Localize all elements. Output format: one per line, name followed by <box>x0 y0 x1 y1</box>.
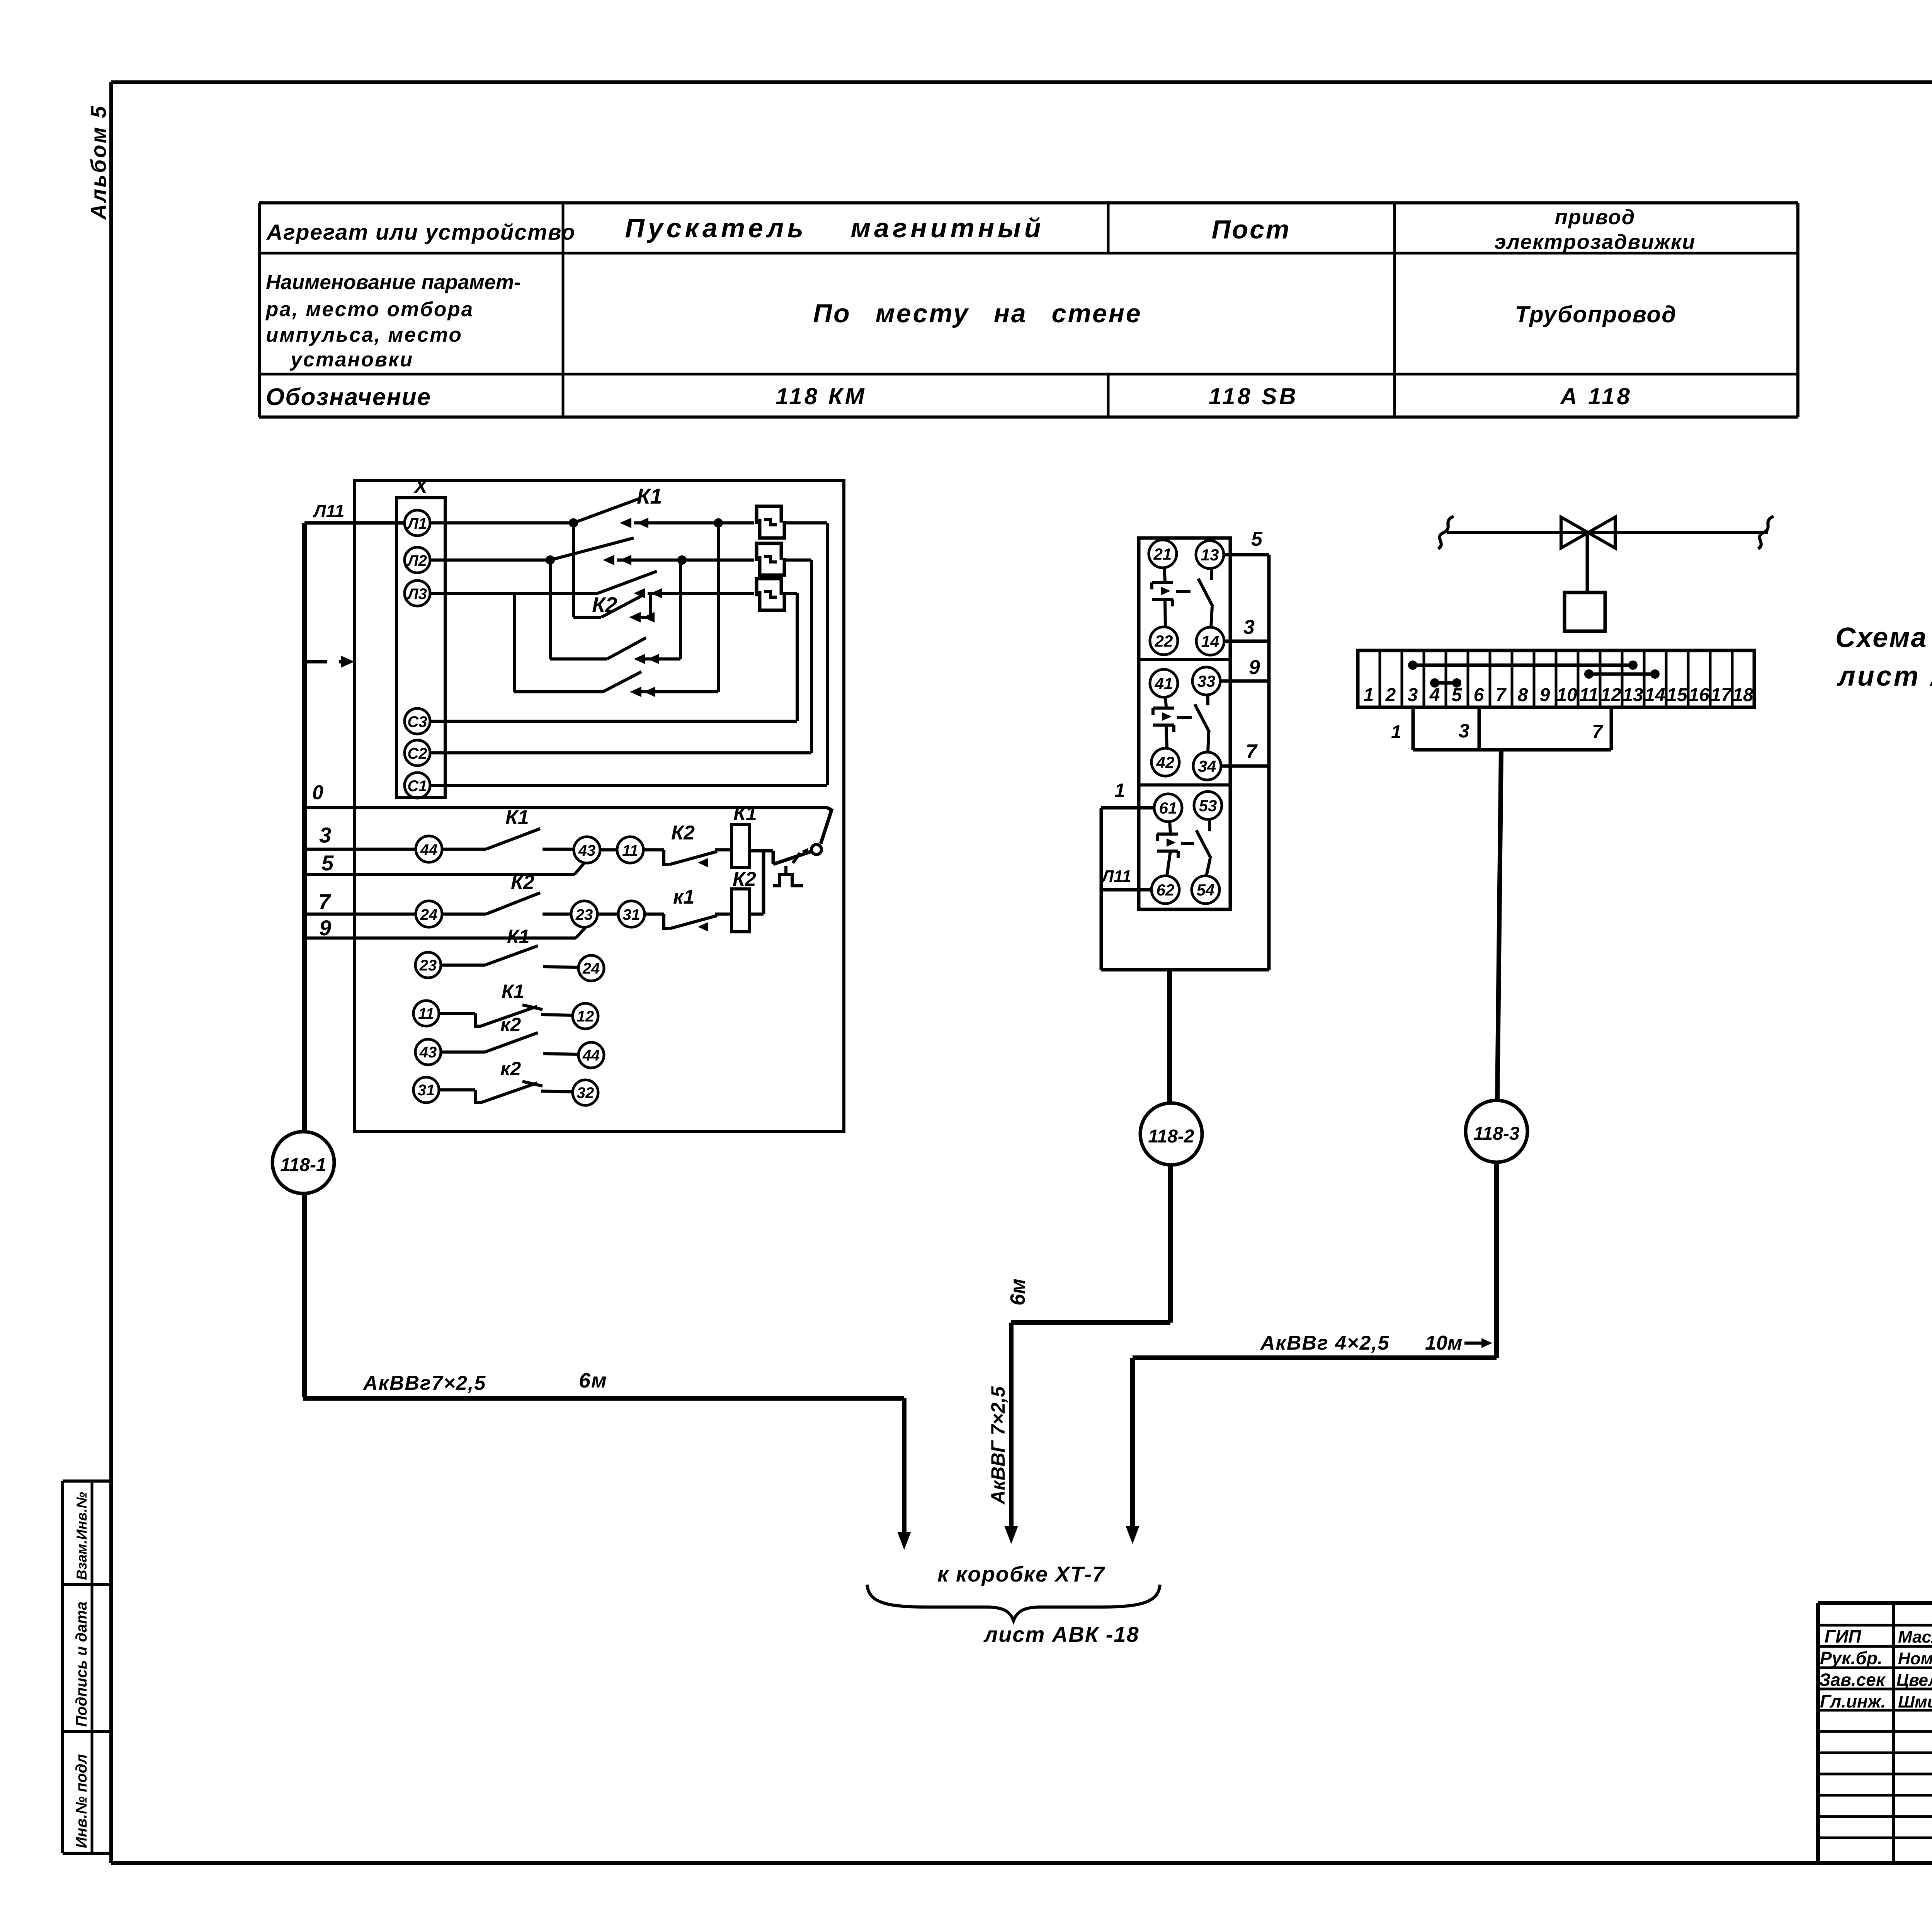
svg-text:К2: К2 <box>511 871 534 894</box>
svg-text:53: 53 <box>1199 797 1217 815</box>
svg-text:44: 44 <box>582 1047 600 1064</box>
svg-text:Трубопровод: Трубопровод <box>1515 301 1677 327</box>
svg-text:14: 14 <box>1645 685 1665 705</box>
svg-text:33: 33 <box>1197 672 1216 690</box>
svg-text:Зав.сек: Зав.сек <box>1819 1670 1886 1690</box>
svg-text:62: 62 <box>1156 881 1175 899</box>
svg-text:привод: привод <box>1555 206 1636 229</box>
svg-text:Подпись и дата: Подпись и дата <box>73 1602 90 1727</box>
svg-text:5: 5 <box>1251 528 1263 550</box>
svg-text:К1: К1 <box>507 926 530 947</box>
svg-text:118 SB: 118 SB <box>1209 383 1298 409</box>
svg-text:Л11: Л11 <box>1101 867 1131 886</box>
svg-text:43: 43 <box>419 1044 437 1061</box>
svg-text:9: 9 <box>1540 685 1550 705</box>
svg-text:2: 2 <box>1385 685 1396 705</box>
svg-text:0: 0 <box>312 781 323 804</box>
svg-text:11: 11 <box>418 1005 434 1022</box>
svg-text:С1: С1 <box>407 778 427 795</box>
svg-text:X: X <box>413 475 429 498</box>
svg-text:К1: К1 <box>505 806 529 829</box>
svg-text:Пост: Пост <box>1212 215 1291 244</box>
svg-text:Номин: Номин <box>1898 1649 1932 1668</box>
svg-text:к коробке ХТ-7: к коробке ХТ-7 <box>937 1562 1105 1586</box>
svg-text:ра, место отбора: ра, место отбора <box>265 298 474 321</box>
svg-text:По месту на стене: По месту на стене <box>813 299 1142 328</box>
svg-text:Шмидт: Шмидт <box>1898 1692 1932 1711</box>
svg-text:1: 1 <box>1364 685 1374 705</box>
svg-text:Л1: Л1 <box>406 515 427 532</box>
svg-text:54: 54 <box>1197 881 1215 899</box>
svg-text:К2: К2 <box>592 592 617 617</box>
svg-text:3: 3 <box>1243 616 1255 638</box>
svg-text:15: 15 <box>1667 685 1688 705</box>
svg-text:3: 3 <box>319 823 331 847</box>
svg-text:6м: 6м <box>1006 1279 1029 1306</box>
svg-text:6м: 6м <box>579 1369 607 1392</box>
svg-text:118-3: 118-3 <box>1473 1124 1520 1144</box>
svg-text:7: 7 <box>318 889 332 914</box>
svg-text:43: 43 <box>578 842 596 859</box>
svg-text:31: 31 <box>623 906 640 923</box>
svg-text:Взам.Инв.№: Взам.Инв.№ <box>74 1492 90 1580</box>
svg-text:установки: установки <box>289 348 413 371</box>
svg-text:12: 12 <box>1600 685 1621 705</box>
svg-text:14: 14 <box>1201 632 1219 650</box>
svg-text:42: 42 <box>1156 753 1175 771</box>
svg-text:61: 61 <box>1159 799 1177 817</box>
svg-text:Инв.№ подл: Инв.№ подл <box>73 1754 90 1848</box>
svg-text:Масленников: Масленников <box>1898 1628 1932 1646</box>
svg-text:13: 13 <box>1622 685 1643 705</box>
svg-text:10: 10 <box>1556 685 1577 705</box>
svg-text:17: 17 <box>1711 685 1732 705</box>
svg-text:Цвельская: Цвельская <box>1896 1671 1932 1690</box>
svg-text:34: 34 <box>1198 757 1216 775</box>
svg-text:Рук.бр.: Рук.бр. <box>1820 1648 1883 1668</box>
svg-text:АкВВг7×2,5: АкВВг7×2,5 <box>362 1372 486 1394</box>
svg-text:12: 12 <box>577 1008 594 1025</box>
svg-text:Схема выполнена на основании с: Схема выполнена на основании схемы управ… <box>1835 622 1932 653</box>
svg-text:6: 6 <box>1474 685 1484 705</box>
svg-text:лист АВК -18: лист АВК -18 <box>983 1622 1139 1646</box>
svg-text:3: 3 <box>1408 685 1418 705</box>
svg-text:к1: к1 <box>673 886 694 908</box>
svg-text:АкВВг 4×2,5: АкВВг 4×2,5 <box>1260 1332 1390 1354</box>
svg-text:23: 23 <box>419 957 437 974</box>
svg-text:18: 18 <box>1733 685 1753 705</box>
svg-text:Л11: Л11 <box>313 501 344 521</box>
svg-text:Л2: Л2 <box>406 552 427 569</box>
svg-text:к2: к2 <box>500 1014 521 1035</box>
svg-text:44: 44 <box>420 841 438 858</box>
svg-text:С2: С2 <box>407 745 427 762</box>
svg-text:5: 5 <box>321 851 334 875</box>
svg-text:4: 4 <box>1429 685 1440 705</box>
svg-text:К1: К1 <box>502 981 524 1002</box>
svg-text:Л3: Л3 <box>406 586 427 603</box>
svg-text:лист АВК - 19: лист АВК - 19 <box>1837 661 1932 692</box>
svg-text:41: 41 <box>1155 674 1173 693</box>
svg-text:9: 9 <box>319 916 331 940</box>
svg-text:электрозадвижки: электрозадвижки <box>1495 230 1696 254</box>
svg-text:7: 7 <box>1496 685 1507 705</box>
svg-text:118-2: 118-2 <box>1148 1126 1194 1147</box>
svg-text:16: 16 <box>1689 685 1709 705</box>
svg-text:импульса, место: импульса, место <box>266 323 463 346</box>
svg-text:13: 13 <box>1201 546 1219 564</box>
svg-text:21: 21 <box>1153 545 1172 563</box>
svg-text:11: 11 <box>1579 685 1599 705</box>
svg-text:Наименование парамет-: Наименование парамет- <box>266 271 521 294</box>
svg-text:Пускатель магнитный: Пускатель магнитный <box>625 213 1044 243</box>
svg-text:к2: к2 <box>500 1058 521 1079</box>
svg-text:Обозначение: Обозначение <box>266 384 431 410</box>
svg-text:24: 24 <box>420 906 438 923</box>
svg-text:9: 9 <box>1249 656 1260 679</box>
svg-text:А 118: А 118 <box>1560 383 1632 409</box>
svg-text:32: 32 <box>577 1084 594 1102</box>
svg-text:118-1: 118-1 <box>280 1155 326 1175</box>
svg-text:К1: К1 <box>637 484 662 508</box>
svg-text:АкВВГ 7×2,5: АкВВГ 7×2,5 <box>987 1386 1009 1505</box>
svg-text:Альбом 5: Альбом 5 <box>86 104 111 220</box>
svg-text:7: 7 <box>1246 741 1258 763</box>
svg-text:ГИП: ГИП <box>1825 1626 1861 1646</box>
svg-text:23: 23 <box>575 906 593 923</box>
svg-text:3: 3 <box>1459 720 1469 742</box>
svg-text:С3: С3 <box>407 713 427 730</box>
svg-text:К2: К2 <box>671 822 695 844</box>
svg-text:31: 31 <box>418 1082 435 1099</box>
svg-text:11: 11 <box>622 842 638 859</box>
svg-text:8: 8 <box>1518 685 1528 705</box>
svg-text:22: 22 <box>1155 632 1173 650</box>
svg-text:1: 1 <box>1391 722 1401 742</box>
svg-text:К1: К1 <box>733 802 757 825</box>
svg-text:1: 1 <box>1114 780 1125 801</box>
svg-text:Гл.инж.: Гл.инж. <box>1820 1691 1886 1711</box>
svg-text:Агрегат или устройство: Агрегат или устройство <box>266 220 576 245</box>
svg-text:7: 7 <box>1592 721 1604 742</box>
svg-text:5: 5 <box>1452 685 1463 705</box>
svg-text:10м: 10м <box>1425 1332 1462 1354</box>
svg-text:118 КМ: 118 КМ <box>776 383 866 409</box>
svg-text:К2: К2 <box>733 868 756 890</box>
svg-text:24: 24 <box>582 960 600 977</box>
